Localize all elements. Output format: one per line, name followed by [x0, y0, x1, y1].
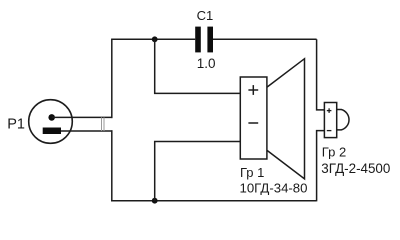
- speaker Gr2 minus sign: [327, 130, 332, 132]
- svg-text:Гр 1: Гр 1: [240, 165, 264, 180]
- node bottom junction: [152, 198, 158, 204]
- capacitor C1: [195, 27, 213, 53]
- connector P1: [29, 100, 73, 144]
- speaker Gr1 cone: [267, 59, 304, 179]
- wire branch to speaker minus: [155, 142, 241, 201]
- wire branch to speaker plus: [155, 39, 241, 93]
- wire left rail upper: [111, 39, 113, 118]
- wire right rail upper: [317, 39, 325, 110]
- wire bottom rail: [111, 200, 316, 202]
- wire plug sleeve to rail: [61, 130, 113, 132]
- speaker Gr1 minus sign: [248, 122, 258, 124]
- node top junction: [152, 36, 158, 42]
- wire plug pin to rail: [52, 116, 113, 118]
- svg-text:10ГД-34-80: 10ГД-34-80: [240, 180, 308, 195]
- wire right rail lower: [317, 131, 325, 202]
- wire top rail left segment: [111, 38, 195, 40]
- wire left rail lower: [111, 130, 113, 201]
- speaker Gr2 body: [324, 103, 336, 138]
- speaker Gr1 plus sign: [248, 85, 258, 95]
- svg-text:1.0: 1.0: [197, 56, 216, 71]
- svg-text:C1: C1: [197, 8, 214, 23]
- svg-text:3ГД-2-4500: 3ГД-2-4500: [321, 161, 390, 176]
- wire top rail right segment: [213, 38, 317, 40]
- speaker Gr2 plus sign: [327, 108, 332, 113]
- speaker Gr2 dome: [337, 110, 349, 130]
- svg-text:Гр 2: Гр 2: [322, 145, 346, 160]
- svg-text:P1: P1: [7, 116, 25, 132]
- speaker Gr1 body: [240, 77, 267, 159]
- cord symbol (two thin lines): [102, 117, 105, 131]
